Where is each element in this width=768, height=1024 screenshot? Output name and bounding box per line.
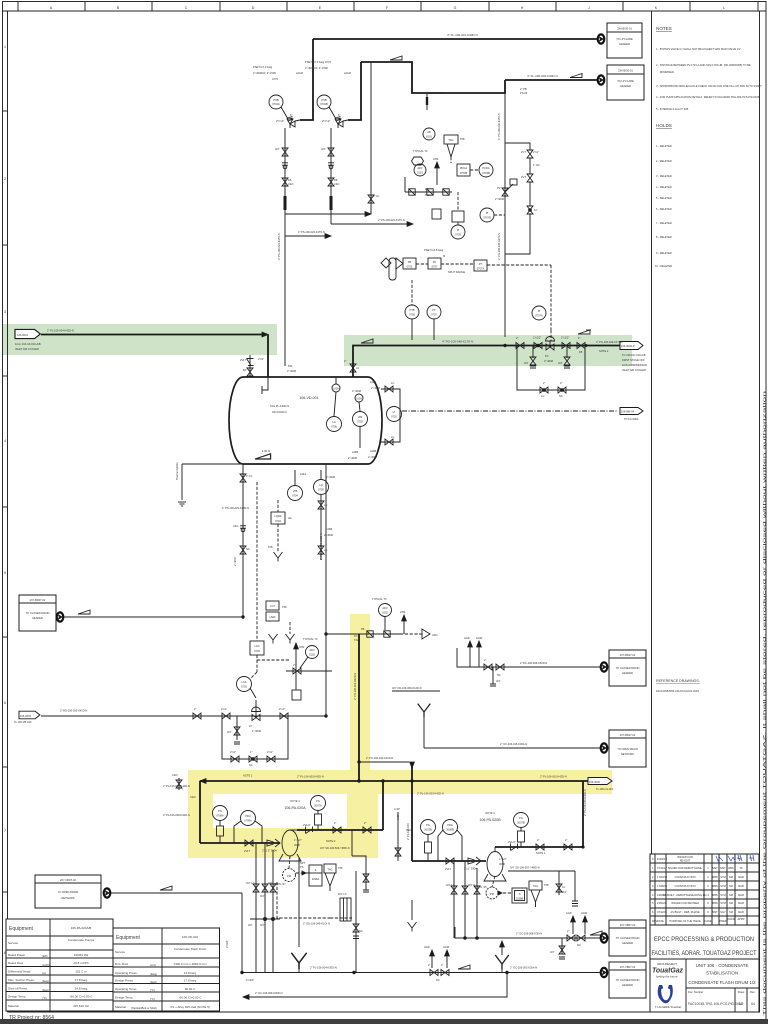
svg-text:1"-300#: 1"-300# — [252, 729, 262, 733]
svg-text:2"-300#: 2"-300# — [233, 556, 237, 566]
pump 106-PA-020B — [479, 811, 506, 881]
pump B TAG funnel — [529, 881, 549, 907]
svg-text:PC: PC — [433, 260, 437, 264]
wire pump B discharge riser — [582, 781, 587, 848]
label vapour riser — [497, 113, 501, 260]
instrument PT-0707 — [427, 305, 441, 340]
instrument PDGA box — [457, 164, 470, 176]
svg-text:P01: P01 — [288, 364, 293, 368]
svg-text:T08: T08 — [544, 883, 549, 887]
svg-text:SM: SM — [729, 884, 733, 888]
svg-text:HEADER: HEADER — [32, 616, 43, 620]
svg-text:0707B: 0707B — [483, 216, 491, 220]
svg-text:ZVT: ZVT — [521, 175, 526, 179]
svg-text:(mm): (mm) — [150, 963, 156, 967]
svg-text:1 - DELETED: 1 - DELETED — [656, 144, 672, 148]
dashed link to funnels — [257, 659, 290, 661]
svg-text:PI: PI — [457, 228, 460, 232]
pump B check valve — [508, 840, 518, 851]
svg-text:HEADER: HEADER — [622, 983, 633, 987]
svg-text:MST: MST — [720, 866, 726, 870]
svg-text:2" PL-106-004-K42D-N: 2" PL-106-004-K42D-N — [47, 329, 74, 333]
pump A reducer + strainer — [262, 839, 280, 853]
svg-text:TO CLOSED DRAIN: TO CLOSED DRAIN — [616, 936, 640, 940]
svg-text:APPR: APPR — [737, 917, 744, 921]
svg-text:AGW: AGW — [443, 945, 450, 949]
pump B discharge gate — [536, 838, 546, 855]
svg-text:NOTE 1: NOTE 1 — [243, 774, 253, 778]
svg-text:SYM: SYM — [720, 884, 726, 888]
svg-text:GAS COMPRESSOR: GAS COMPRESSOR — [622, 363, 647, 367]
svg-text:2X6-BOD-01: 2X6-BOD-01 — [617, 27, 632, 31]
svg-text:2"-300#: 2"-300# — [352, 389, 362, 393]
svg-text:2½"x2": 2½"x2" — [322, 119, 330, 123]
svg-text:NC: NC — [559, 394, 563, 398]
spectacle above vapour line — [578, 330, 591, 334]
svg-text:2" RD-106-033-K42D-N: 2" RD-106-033-K42D-N — [60, 709, 87, 713]
instrument PSB-0701B — [317, 95, 336, 119]
svg-text:MAR: MAR — [738, 910, 744, 914]
svg-text:3/4": 3/4" — [562, 890, 567, 894]
svg-text:BC: BC — [243, 368, 247, 372]
svg-text:-66.00 C/+0.00 C: -66.00 C/+0.00 C — [179, 996, 203, 1000]
svg-text:2"-300#: 2"-300# — [326, 475, 336, 479]
svg-text:0706: 0706 — [409, 313, 415, 317]
svg-text:2"-300#: 2"-300# — [368, 455, 378, 459]
svg-text:3/4": 3/4" — [260, 923, 265, 927]
svg-text:INLET AIR COOLER: INLET AIR COOLER — [15, 347, 39, 351]
instrument PG-2007A — [311, 796, 326, 831]
svg-text:(barg): (barg) — [150, 972, 157, 976]
svg-text:2" PO-106-032-K42D-N: 2" PO-106-032-K42D-N — [366, 756, 393, 760]
TouatGaz logo — [652, 962, 684, 1009]
equipment table 1 (pumps) — [6, 919, 113, 1011]
svg-text:TAG PL-K42D-N: TAG PL-K42D-N — [270, 404, 289, 408]
svg-text:SIO-K42D-N: SIO-K42D-N — [272, 410, 287, 414]
split range row: PC box — [428, 254, 445, 269]
svg-text:FB: FB — [334, 178, 338, 182]
LV station gate 2 — [221, 707, 230, 719]
svg-text:SM: SM — [729, 875, 733, 879]
svg-text:PCDA: PCDA — [482, 166, 489, 170]
svg-text:NC: NC — [577, 943, 581, 947]
svg-text:19/03/21: 19/03/21 — [657, 893, 668, 897]
svg-text:Equipment: Equipment — [116, 935, 141, 941]
svg-text:AS BUILT - DEB. PHASE: AS BUILT - DEB. PHASE — [670, 910, 699, 914]
svg-text:2" PL-106-004-K30D-N: 2" PL-106-004-K30D-N — [310, 966, 337, 970]
svg-text:1": 1" — [250, 750, 252, 754]
svg-text:3/4" SD-106-507-Y4BD-N: 3/4" SD-106-507-Y4BD-N — [510, 866, 540, 870]
LV station inlet tag — [14, 709, 87, 725]
closed drain header box bottom 2 — [609, 962, 646, 998]
HOLDS title — [656, 123, 672, 128]
LV control valve — [249, 700, 262, 733]
svg-text:152 C.m: 152 C.m — [75, 970, 87, 974]
svg-text:21/04/21: 21/04/21 — [657, 901, 668, 905]
svg-text:0703: 0703 — [254, 649, 260, 653]
wire pump A discharge riser — [382, 781, 384, 830]
pump B S box — [498, 888, 527, 903]
svg-text:2 - DELETED: 2 - DELETED — [656, 159, 672, 163]
svg-text:HEADER: HEADER — [622, 941, 633, 945]
small od label line — [392, 686, 440, 691]
NOTES title — [656, 26, 672, 31]
pump A discharge gate2 — [363, 821, 371, 833]
svg-text:2": 2" — [537, 838, 539, 842]
svg-text:L02A: L02A — [333, 387, 339, 391]
svg-text:API 610 O2: API 610 O2 — [73, 1004, 89, 1008]
wire desander drop — [353, 871, 363, 973]
double valve on bottom header — [424, 945, 450, 982]
svg-text:0703: 0703 — [241, 685, 247, 689]
slope flag on vapour line — [361, 339, 373, 343]
svg-text:TO OPEN DRAIN: TO OPEN DRAIN — [617, 747, 638, 751]
svg-text:TYPN. S5: TYPN. S5 — [475, 885, 487, 889]
svg-text:0706: 0706 — [331, 425, 337, 429]
svg-text:3/4": 3/4" — [268, 881, 273, 885]
svg-text:TYPICAL T3: TYPICAL T3 — [372, 597, 387, 601]
svg-text:0102: 0102 — [382, 611, 388, 615]
label riser Y2 — [353, 673, 357, 700]
svg-text:07/11/17: 07/11/17 — [657, 866, 667, 870]
svg-text:CONSTRUCTION: CONSTRUCTION — [675, 884, 696, 888]
svg-text:(°C): (°C) — [150, 988, 155, 992]
svg-text:(°C): (°C) — [42, 996, 47, 1000]
svg-text:2" PO-106-001-K42D-N: 2" PO-106-001-K42D-N — [353, 673, 357, 700]
svg-text:A.SP: A.SP — [394, 807, 400, 811]
valves on mid drain line — [484, 658, 504, 686]
funnel on bottom header right — [495, 941, 509, 973]
svg-text:S: S — [519, 892, 521, 896]
svg-text:MAR: MAR — [738, 875, 744, 879]
svg-text:11/02/13: 11/02/13 — [657, 857, 667, 861]
svg-text:CS + Alloy 625 clad (NOTE 5): CS + Alloy 625 clad (NOTE 5) — [170, 1005, 210, 1009]
svg-text:2V1/2": 2V1/2" — [508, 840, 516, 844]
svg-text:TYPICAL T3: TYPICAL T3 — [303, 637, 318, 641]
svg-text:0707: 0707 — [431, 313, 437, 317]
bottom dark strip — [0, 1019, 768, 1024]
funnel on bottom header left — [291, 858, 306, 973]
label pump A area lines — [163, 784, 190, 788]
svg-text:LG: LG — [332, 420, 335, 424]
svg-text:LV: LV — [249, 724, 252, 728]
svg-text:CONSTRUCTION: CONSTRUCTION — [675, 875, 696, 879]
svg-text:2028A: 2028A — [312, 877, 320, 881]
svg-text:INLET AIR COOLER: INLET AIR COOLER — [622, 368, 646, 372]
svg-text:NOTE 4: NOTE 4 — [485, 811, 495, 815]
svg-text:ACH2: ACH2 — [344, 71, 351, 75]
svg-text:2": 2" — [565, 838, 567, 842]
svg-text:GROUPEMENT: GROUPEMENT — [657, 962, 677, 966]
svg-text:LC: LC — [356, 366, 359, 370]
wire vessel inlet line — [41, 332, 268, 337]
svg-text:T02: T02 — [425, 193, 430, 197]
svg-text:This document is the property: This document is the property of the Gro… — [763, 391, 767, 1016]
wire flare line 2 — [505, 74, 597, 81]
instrument PI-0707A — [532, 306, 546, 320]
svg-text:PDG: PDG — [245, 814, 251, 818]
svg-text:(m): (m) — [42, 971, 46, 975]
svg-text:2": 2" — [578, 336, 580, 340]
vapour line connector tag — [596, 340, 643, 353]
svg-text:3/4": 3/4" — [558, 361, 563, 365]
ADV typical T3 at riser — [372, 597, 406, 634]
svg-text:2" PG-106-045-K1T0-N: 2" PG-106-045-K1T0-N — [497, 233, 501, 260]
svg-text:J: J — [588, 6, 590, 10]
wire relief subheader upper — [361, 56, 505, 93]
svg-text:PSB: PSB — [321, 98, 326, 102]
svg-text:24.8 barg: 24.8 barg — [75, 987, 88, 991]
svg-text:EPCC PROCESSING & PRODUCTION: EPCC PROCESSING & PRODUCTION — [654, 936, 754, 943]
svg-text:ATM: ATM — [299, 645, 304, 649]
svg-text:CONDENSATE FLASH DRUM 1/2: CONDENSATE FLASH DRUM 1/2 — [688, 980, 756, 985]
svg-text:TO FC-0001: TO FC-0001 — [624, 417, 639, 421]
svg-text:106-PA-020A/B: 106-PA-020A/B — [71, 926, 92, 930]
svg-text:TouatGaz: TouatGaz — [652, 968, 684, 975]
svg-text:DATE: DATE — [657, 919, 664, 923]
svg-text:106-0003: 106-0003 — [20, 714, 32, 718]
svg-text:(barg): (barg) — [42, 979, 49, 983]
svg-text:3/4": 3/4" — [248, 923, 253, 927]
off-page connector drain left — [57, 612, 64, 621]
svg-text:TJ ALGERIE TouatGaz: TJ ALGERIE TouatGaz — [655, 1005, 682, 1009]
svg-text:4" PG-106-049-K1T0-P: 4" PG-106-049-K1T0-P — [596, 340, 623, 344]
small fitting top right — [426, 93, 428, 110]
instrument PI-0707B — [480, 208, 505, 222]
svg-text:0701B: 0701B — [320, 102, 328, 106]
svg-text:PM: PM — [490, 892, 494, 896]
svg-text:PT: PT — [479, 262, 483, 266]
off-page connector mid drain — [601, 662, 608, 671]
svg-text:SYM: SYM — [720, 893, 726, 897]
instrument PDG-0709A — [234, 811, 262, 844]
pump B aux vertical — [394, 807, 401, 861]
off-page connector open drain right — [601, 743, 608, 752]
svg-text:ISSUED FOR REVISED: ISSUED FOR REVISED — [671, 901, 699, 905]
svg-text:Condensate Pumps: Condensate Pumps — [68, 938, 95, 942]
svg-text:106-0001: 106-0001 — [17, 333, 29, 337]
svg-text:0703: 0703 — [357, 420, 363, 424]
svg-text:LTB: LTB — [358, 415, 363, 419]
relief valve PSV-A — [287, 117, 300, 129]
svg-text:2"x1/2": 2"x1/2" — [561, 336, 569, 340]
relief valve PSV-B — [335, 117, 348, 129]
svg-text:G: G — [454, 6, 457, 10]
svg-text:0703: 0703 — [455, 233, 461, 237]
pump B discharge gate2 — [564, 838, 572, 850]
svg-text:LC: LC — [562, 885, 565, 889]
svg-text:2"x1/2": 2"x1/2" — [533, 336, 541, 340]
svg-text:PB: PB — [408, 260, 412, 264]
split range row: PSHH box — [396, 258, 416, 269]
svg-text:3/4": 3/4" — [496, 679, 501, 683]
valve tags near PSV outlets — [276, 113, 340, 123]
junction dots — [200, 344, 508, 974]
vessel label — [270, 396, 319, 414]
svg-text:2" OC-106-003-K30A-N: 2" OC-106-003-K30A-N — [510, 966, 537, 970]
svg-text:3 - APPROPRIATE DRILLED-HOLE C: 3 - APPROPRIATE DRILLED-HOLE CHECK VALVE… — [656, 84, 762, 88]
svg-text:C&O: C&O — [190, 795, 196, 799]
svg-text:160/63 kW: 160/63 kW — [74, 953, 89, 957]
svg-text:NOTES: NOTES — [656, 26, 672, 31]
svg-text:Doc. Number: Doc. Number — [688, 990, 703, 994]
revision table — [650, 854, 759, 925]
svg-text:LG: LG — [319, 483, 322, 487]
svg-text:L02B: L02B — [370, 449, 376, 453]
svg-text:2003B: 2003B — [424, 828, 432, 832]
svg-text:NETWORK: NETWORK — [61, 896, 75, 900]
svg-text:AS BUILT - DEBOTTLENECKING PH.: AS BUILT - DEBOTTLENECKING PH. — [663, 893, 707, 897]
wire vapour outlet line to compressor — [442, 340, 620, 346]
svg-text:2X7-BD07-02: 2X7-BD07-02 — [30, 598, 46, 602]
svg-text:ADV: ADV — [382, 606, 388, 610]
pump A drains — [246, 843, 280, 973]
instrument PG-0708A — [213, 806, 228, 844]
svg-text:2": 2" — [567, 929, 569, 933]
pump A PM circle — [274, 856, 296, 886]
svg-text:NC: NC — [497, 673, 501, 677]
svg-text:4" PS-106-030-K1T0-N: 4" PS-106-030-K1T0-N — [497, 113, 501, 140]
svg-text:NOTE 1: NOTE 1 — [536, 851, 546, 855]
svg-text:(kW): (kW) — [42, 954, 48, 958]
svg-text:RBS: RBS — [712, 884, 718, 888]
off-page connector to flare 2 — [598, 75, 605, 84]
svg-text:2X7-OD07-02: 2X7-OD07-02 — [60, 878, 77, 882]
svg-text:3/4" LC: 3/4" LC — [246, 881, 255, 885]
wire flare-line2 drop to PV station — [504, 93, 506, 337]
svg-text:PDGA: PDGA — [460, 166, 468, 170]
svg-text:AD: AD — [427, 130, 431, 134]
svg-text:2" OC-106-008-K30/-N: 2" OC-106-008-K30/-N — [516, 932, 542, 936]
svg-text:2": 2" — [293, 663, 295, 667]
svg-text:Material: Material — [8, 1004, 19, 1008]
svg-text:3/4" LC: 3/4" LC — [446, 883, 455, 887]
vapour destination text — [622, 353, 647, 372]
svg-text:TO CLOSED DRAIN: TO CLOSED DRAIN — [26, 611, 50, 615]
wire pump A discharge — [297, 829, 383, 831]
top grid band — [3, 2, 767, 12]
svg-text:PTB: PTB — [409, 308, 414, 312]
svg-text:4" FL-106-001-K30D-N: 4" FL-106-001-K30D-N — [447, 33, 478, 37]
svg-text:Equipment: Equipment — [9, 926, 34, 932]
svg-text:ATM: ATM — [400, 610, 405, 614]
svg-text:ZVT: ZVT — [521, 150, 526, 154]
svg-text:0707A: 0707A — [477, 267, 485, 271]
svg-text:Service: Service — [8, 941, 18, 945]
svg-text:2"x3/4": 2"x3/4" — [225, 940, 229, 948]
svg-text:RE-EDIT: RE-EDIT — [680, 859, 691, 863]
svg-text:TO CLOSED DRAIN: TO CLOSED DRAIN — [616, 666, 640, 670]
svg-text:H: H — [521, 6, 524, 10]
gate valve 3 on vapour line — [577, 336, 587, 354]
svg-text:(barg): (barg) — [42, 988, 49, 992]
svg-text:2"x3" PS-02: 2"x3" PS-02 — [428, 91, 443, 95]
svg-text:MAR: MAR — [738, 893, 744, 897]
gate valve 2 on vapour line — [561, 336, 570, 349]
svg-text:20.8 m³/3/h: 20.8 m³/3/h — [73, 961, 89, 965]
pump B reducer — [464, 857, 481, 871]
svg-text:PURPOSE OF THE ISSUE: PURPOSE OF THE ISSUE — [669, 919, 701, 923]
svg-text:PT: PT — [432, 308, 436, 312]
svg-text:LGC: LGC — [254, 644, 259, 648]
svg-text:NC: NC — [359, 929, 363, 933]
svg-text:SPLIT RANGE: SPLIT RANGE — [448, 270, 465, 274]
pump A S box — [296, 861, 322, 886]
svg-text:106-VD-001: 106-VD-001 — [299, 396, 318, 400]
wire PSV-A outlet riser — [300, 39, 313, 120]
svg-text:2028B: 2028B — [516, 897, 524, 901]
split range label — [448, 270, 465, 274]
wire vapour outlet riser — [344, 346, 505, 378]
svg-text:2": 2" — [428, 963, 430, 967]
pump A TAG funnel — [324, 864, 343, 891]
svg-text:5 - INTERNALS ALLOY 625.: 5 - INTERNALS ALLOY 625. — [656, 107, 689, 111]
wire closed drain line 1 — [455, 927, 600, 938]
svg-text:PG: PG — [218, 809, 222, 813]
svg-text:PC: PC — [545, 354, 549, 358]
svg-text:FAC10038-BTR-106-PCS-DCN-0203: FAC10038-BTR-106-PCS-DCN-0203 — [656, 689, 699, 693]
svg-text:S: S — [315, 868, 317, 872]
highlight yellow patch pump A bottom — [210, 828, 378, 858]
svg-text:0101: 0101 — [426, 135, 432, 139]
svg-text:5: 5 — [4, 571, 6, 575]
svg-text:From 104-UZ-010-A/B: From 104-UZ-010-A/B — [15, 342, 41, 346]
svg-text:Dim. DxH: Dim. DxH — [115, 962, 128, 966]
svg-text:CASE: CASE — [704, 919, 711, 923]
svg-text:L02A: L02A — [370, 380, 376, 384]
instrument PSB-0701A — [269, 95, 288, 119]
svg-text:MST: MST — [712, 866, 718, 870]
wire relief cross line — [285, 230, 331, 238]
svg-text:2"x1": 2"x1" — [267, 750, 273, 754]
LV drain stub — [227, 716, 240, 744]
svg-text:106-VD-001: 106-VD-001 — [182, 935, 199, 939]
svg-text:LT: LT — [393, 410, 396, 414]
riser cluster dashed tail — [400, 629, 437, 639]
label PSV-A set pressure — [253, 65, 303, 81]
svg-text:2X7-VB07-02: 2X7-VB07-02 — [620, 923, 636, 927]
svg-text:AGW: AGW — [476, 636, 483, 640]
svg-text:LG?: LG? — [270, 604, 275, 608]
svg-text:1: 1 — [4, 45, 6, 49]
wire LV station line — [41, 715, 326, 717]
svg-text:1" NC: 1" NC — [533, 163, 540, 167]
svg-text:ISSUED FOR DEBOTTLENE.: ISSUED FOR DEBOTTLENE. — [668, 866, 703, 870]
svg-text:2"-300#: 2"-300# — [348, 456, 358, 460]
svg-text:7 - DELETED: 7 - DELETED — [656, 221, 672, 225]
highlight yellow patch pump A left — [188, 792, 213, 858]
svg-text:SYM: SYM — [720, 875, 726, 879]
PSV inlet nozzle tag — [287, 364, 297, 373]
svg-text:0701A: 0701A — [272, 102, 280, 106]
svg-text:2"-300#: 2"-300# — [287, 369, 297, 373]
svg-text:D: D — [252, 6, 255, 10]
svg-text:L03A: L03A — [356, 397, 362, 401]
desander striped box — [338, 892, 351, 921]
svg-text:1 - BYPASS VALVE Cv SHALL NOT: 1 - BYPASS VALVE Cv SHALL NOT BE HIGHER … — [656, 47, 741, 51]
svg-text:2 - DISTANCE BETWEEN PV-1701-A: 2 - DISTANCE BETWEEN PV-1701-A AND SDV-1… — [656, 63, 751, 67]
vessel top small nozzles — [332, 377, 340, 392]
svg-text:PG: PG — [426, 823, 430, 827]
pump 106-PA-020A — [279, 799, 306, 861]
svg-text:FB: FB — [361, 627, 365, 631]
pump A check valve — [303, 823, 313, 834]
svg-text:PM: PM — [287, 874, 291, 878]
svg-text:LQRA: LQRA — [274, 514, 281, 518]
svg-text:60.00 C: 60.00 C — [185, 987, 196, 991]
svg-text:Rated Power: Rated Power — [8, 953, 25, 957]
svg-text:5 - DELETED: 5 - DELETED — [656, 196, 672, 200]
